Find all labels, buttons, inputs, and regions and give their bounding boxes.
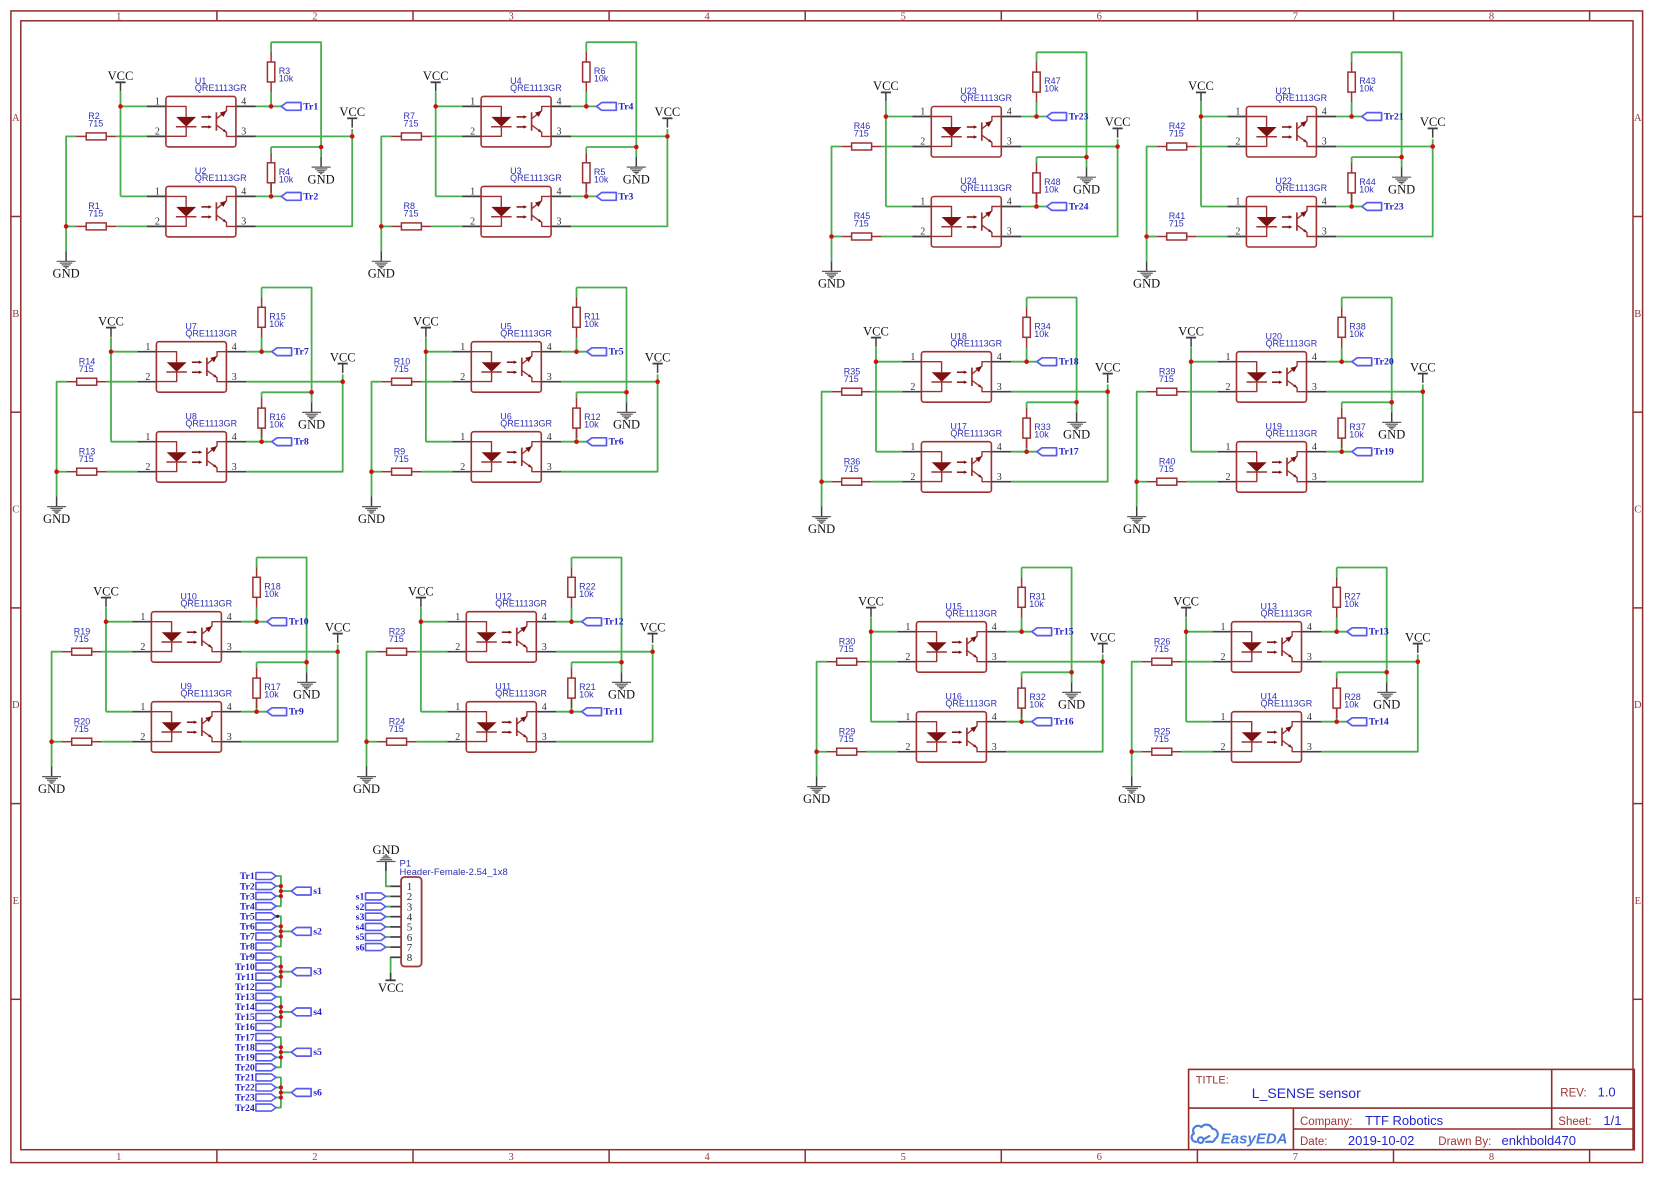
svg-text:4: 4 xyxy=(1322,197,1327,208)
svg-text:Tr14: Tr14 xyxy=(1369,717,1389,728)
net flag Tr5 xyxy=(587,347,624,358)
ground GND (above P1) xyxy=(372,843,399,871)
svg-text:QRE1113GR: QRE1113GR xyxy=(945,608,997,618)
wire: left GND rail xyxy=(832,147,842,262)
svg-text:1: 1 xyxy=(1221,712,1226,723)
svg-text:Tr23: Tr23 xyxy=(1384,201,1404,212)
resistor R30 715 xyxy=(827,636,867,665)
wire: bus Tr21-Tr24 to s6 xyxy=(276,1077,291,1107)
svg-text:1: 1 xyxy=(116,1152,121,1163)
opto-sensor U5 QRE1113GR xyxy=(460,321,552,392)
svg-text:4: 4 xyxy=(1007,197,1012,208)
opto-sensor U20 QRE1113GR xyxy=(1226,331,1318,402)
wire: left GND rail xyxy=(817,662,827,777)
svg-text:1: 1 xyxy=(155,97,160,108)
svg-text:5: 5 xyxy=(901,12,906,23)
wire: bus Tr9-Tr12 to s3 xyxy=(276,957,291,987)
wire: top rail R18 to right GND xyxy=(257,558,307,673)
svg-text:C: C xyxy=(1634,505,1641,516)
wire: R46 to U23 pin 2 xyxy=(882,146,913,148)
net flag s3 (at P1) xyxy=(356,912,386,923)
wire: P1 pin 1 to GND xyxy=(386,871,390,886)
svg-text:A: A xyxy=(12,113,20,124)
svg-text:VCC: VCC xyxy=(339,105,365,119)
svg-text:10k: 10k xyxy=(1044,185,1059,195)
svg-text:2: 2 xyxy=(1226,382,1231,393)
svg-text:QRE1113GR: QRE1113GR xyxy=(195,173,247,183)
ground GND (right) xyxy=(1058,682,1085,711)
wire: top rail R11 to right GND xyxy=(577,288,627,403)
resistor R43 10k xyxy=(1348,62,1376,102)
svg-text:715: 715 xyxy=(854,129,869,139)
resistor R21 10k xyxy=(568,668,596,708)
svg-text:3: 3 xyxy=(547,462,552,473)
resistor R42 715 xyxy=(1157,121,1197,150)
junction dots xyxy=(1129,629,1420,754)
net flag Tr14 xyxy=(1347,717,1389,728)
wire: U21 pin 4 to Tr21 flag xyxy=(1336,102,1362,117)
wire: top rail R3 to right GND xyxy=(271,42,321,157)
net flag Tr11 xyxy=(582,707,623,718)
wire: U21 pin 3 / U22 pin 3 to VCC xyxy=(1336,139,1432,236)
svg-text:3: 3 xyxy=(1312,382,1317,393)
svg-text:4: 4 xyxy=(232,342,237,353)
ground GND (left) xyxy=(1123,507,1150,536)
pin stubs U9 xyxy=(133,712,242,742)
svg-text:GND: GND xyxy=(353,782,380,796)
svg-text:3: 3 xyxy=(542,642,547,653)
junction dots xyxy=(64,104,355,229)
svg-text:Header-Female-2.54_1x8: Header-Female-2.54_1x8 xyxy=(400,867,508,878)
power VCC (below P1) xyxy=(378,973,404,995)
net flag Tr3 xyxy=(597,191,634,202)
svg-text:715: 715 xyxy=(389,634,404,644)
svg-text:715: 715 xyxy=(1154,644,1169,654)
svg-text:A: A xyxy=(1634,113,1642,124)
svg-text:Tr9: Tr9 xyxy=(289,707,304,718)
power VCC (right) xyxy=(1095,360,1121,383)
resistor R31 10k xyxy=(1018,577,1046,617)
svg-text:8: 8 xyxy=(407,952,413,964)
wire: R44 top to right GND node xyxy=(1352,157,1402,163)
wire: R28 top to right GND node xyxy=(1337,672,1387,678)
wire: R45 to U24 pin 2 xyxy=(882,236,913,238)
wire: R25 to U14 pin 2 xyxy=(1182,751,1213,753)
net flag Tr23 xyxy=(1362,201,1404,212)
wire: s3 to P1 pin 4 xyxy=(386,916,391,918)
power VCC (right) xyxy=(330,350,356,373)
svg-text:QRE1113GR: QRE1113GR xyxy=(960,93,1012,103)
EasyEDA logo xyxy=(1192,1125,1288,1148)
pin stubs U21 xyxy=(1228,117,1337,147)
opto-sensor U18 QRE1113GR xyxy=(910,331,1002,402)
junction dots xyxy=(819,359,1110,484)
wire: U20 pin 4 to Tr20 flag xyxy=(1326,347,1352,362)
pin stubs U20 xyxy=(1218,362,1327,392)
wire: top rail R38 to right GND xyxy=(1342,298,1392,413)
svg-text:Sheet:: Sheet: xyxy=(1558,1116,1591,1128)
ground GND (right) xyxy=(1373,682,1400,711)
wire: R12 top to right GND node xyxy=(577,392,627,398)
svg-text:Tr19: Tr19 xyxy=(1374,447,1394,458)
svg-text:715: 715 xyxy=(1169,129,1184,139)
net flag Tr6 xyxy=(587,437,624,448)
svg-text:QRE1113GR: QRE1113GR xyxy=(1261,698,1313,708)
wire: U3 pin 4 to Tr3 flag xyxy=(571,183,597,197)
svg-text:3: 3 xyxy=(241,127,246,138)
net label Tr17 (list) xyxy=(235,1032,276,1043)
junction dots xyxy=(49,619,340,744)
svg-text:GND: GND xyxy=(623,172,650,186)
svg-text:QRE1113GR: QRE1113GR xyxy=(510,83,562,93)
svg-text:1: 1 xyxy=(460,342,465,353)
wire: R41 to U22 pin 2 xyxy=(1197,236,1228,238)
svg-text:7: 7 xyxy=(1293,12,1298,23)
junction dots xyxy=(364,619,655,744)
wire: bus Tr1-Tr4 to s1 xyxy=(276,876,291,906)
svg-text:715: 715 xyxy=(74,724,89,734)
power VCC (left) xyxy=(873,79,899,102)
svg-text:QRE1113GR: QRE1113GR xyxy=(195,83,247,93)
net flag Tr4 xyxy=(597,101,634,112)
net label Tr21 (list) xyxy=(235,1073,276,1084)
svg-text:D: D xyxy=(1634,700,1642,711)
svg-text:Tr12: Tr12 xyxy=(604,617,624,628)
svg-text:715: 715 xyxy=(1154,734,1169,744)
net flag Tr21 xyxy=(1362,111,1404,122)
resistor R12 10k xyxy=(573,398,601,438)
net flag Tr24 xyxy=(1047,201,1089,212)
wire: R16 top to right GND node xyxy=(262,392,312,398)
junction dots xyxy=(54,349,345,474)
pin stubs U10 xyxy=(133,622,242,652)
power VCC (left) xyxy=(423,69,449,92)
resistor R27 10k xyxy=(1333,577,1361,617)
resistor R37 10k xyxy=(1338,408,1366,448)
svg-text:Tr13: Tr13 xyxy=(1369,627,1389,638)
wire: U7 pin 4 to Tr7 flag xyxy=(246,337,271,352)
svg-text:10k: 10k xyxy=(269,319,284,329)
opto-sensor U2 QRE1113GR xyxy=(155,166,247,237)
power VCC (right) xyxy=(1420,115,1446,138)
net flag s1 (list) xyxy=(291,886,322,897)
svg-text:4: 4 xyxy=(1007,107,1012,118)
pin stubs U6 xyxy=(452,442,561,472)
wire: R19 to U10 pin 2 xyxy=(102,651,133,653)
power VCC (left) xyxy=(863,324,889,347)
svg-text:2: 2 xyxy=(155,127,160,138)
svg-text:GND: GND xyxy=(358,512,385,526)
svg-text:VCC: VCC xyxy=(873,79,899,93)
svg-text:4: 4 xyxy=(704,12,710,23)
svg-text:enkhbold470: enkhbold470 xyxy=(1502,1133,1576,1148)
svg-text:Tr20: Tr20 xyxy=(1374,357,1394,368)
svg-text:3: 3 xyxy=(542,732,547,743)
wire: U9 pin 4 to Tr9 flag xyxy=(241,698,266,712)
svg-text:2: 2 xyxy=(905,742,910,753)
svg-text:s5: s5 xyxy=(313,1047,322,1058)
opto-sensor U8 QRE1113GR xyxy=(145,411,237,482)
svg-text:10k: 10k xyxy=(279,174,294,184)
svg-text:GND: GND xyxy=(1133,277,1160,291)
ground GND (right) xyxy=(298,402,325,431)
svg-text:VCC: VCC xyxy=(1090,630,1116,644)
net flag Tr23 xyxy=(1047,111,1089,122)
svg-text:715: 715 xyxy=(394,364,409,374)
svg-text:QRE1113GR: QRE1113GR xyxy=(950,338,1002,348)
wire: R2 to U1 pin 2 xyxy=(116,135,147,137)
net flag s4 (list) xyxy=(291,1007,322,1018)
wire: U13 pin 3 / U14 pin 3 to VCC xyxy=(1321,654,1417,751)
svg-text:VCC: VCC xyxy=(93,584,119,598)
svg-text:3: 3 xyxy=(1007,137,1012,148)
svg-text:1: 1 xyxy=(460,432,465,443)
power VCC (left) xyxy=(93,584,119,607)
wire: U5 pin 4 to Tr5 flag xyxy=(561,337,587,352)
svg-text:1/1: 1/1 xyxy=(1603,1113,1621,1128)
svg-text:1: 1 xyxy=(1226,442,1231,453)
svg-text:Tr15: Tr15 xyxy=(1054,627,1074,638)
svg-text:GND: GND xyxy=(803,792,830,806)
svg-text:GND: GND xyxy=(43,512,70,526)
opto-sensor U6 QRE1113GR xyxy=(460,411,552,482)
svg-text:10k: 10k xyxy=(1344,700,1359,710)
wire: VCC rail to U4 pin 1 and U3 pin 1 xyxy=(436,92,463,196)
svg-text:GND: GND xyxy=(1063,428,1090,442)
pin stubs U12 xyxy=(447,622,556,652)
wire: U23 pin 3 / U24 pin 3 to VCC xyxy=(1021,139,1117,236)
svg-text:2: 2 xyxy=(1226,472,1231,483)
svg-text:Tr6: Tr6 xyxy=(609,437,624,448)
svg-text:10k: 10k xyxy=(594,174,609,184)
net flag s5 (at P1) xyxy=(356,932,386,943)
svg-text:3: 3 xyxy=(227,732,232,743)
svg-text:GND: GND xyxy=(1058,698,1085,712)
power VCC (right) xyxy=(1090,630,1116,653)
net flag Tr9 xyxy=(267,707,304,718)
svg-text:1: 1 xyxy=(455,702,460,713)
svg-text:2: 2 xyxy=(910,382,915,393)
wire: VCC rail to U18 pin 1 and U17 pin 1 xyxy=(876,347,903,452)
svg-text:715: 715 xyxy=(844,374,859,384)
svg-text:4: 4 xyxy=(232,432,237,443)
net label Tr16 (list) xyxy=(235,1022,276,1033)
svg-text:2: 2 xyxy=(455,642,460,653)
net flag s3 (list) xyxy=(291,967,322,978)
opto-sensor U9 QRE1113GR xyxy=(140,681,232,752)
svg-text:s1: s1 xyxy=(313,886,322,897)
net flag Tr16 xyxy=(1032,717,1074,728)
wire: R4 top to right GND node xyxy=(271,147,321,153)
net flag s2 (at P1) xyxy=(356,902,386,913)
wire: left GND rail xyxy=(1137,392,1147,507)
pin stubs U4 xyxy=(462,106,571,136)
net label Tr19 (list) xyxy=(235,1053,276,1064)
wire: U18 pin 4 to Tr18 flag xyxy=(1011,347,1037,362)
svg-text:L_SENSE sensor: L_SENSE sensor xyxy=(1252,1085,1361,1101)
wire: left GND rail xyxy=(381,136,391,251)
svg-text:QRE1113GR: QRE1113GR xyxy=(1275,93,1327,103)
junction dots xyxy=(379,104,670,229)
pin stubs U14 xyxy=(1213,722,1322,752)
opto-sensor U10 QRE1113GR xyxy=(140,591,232,662)
svg-text:VCC: VCC xyxy=(640,620,666,634)
wire: R48 top to right GND node xyxy=(1037,157,1087,163)
svg-text:E: E xyxy=(13,896,19,907)
wire: R5 top to right GND node xyxy=(586,147,636,153)
ground GND (right) xyxy=(1388,167,1415,196)
svg-text:Tr16: Tr16 xyxy=(1054,717,1074,728)
svg-text:3: 3 xyxy=(557,127,562,138)
svg-text:s6: s6 xyxy=(356,942,365,953)
net flag Tr13 xyxy=(1347,627,1389,638)
svg-text:TTF Robotics: TTF Robotics xyxy=(1365,1113,1444,1128)
resistor R13 715 xyxy=(67,446,107,475)
net flag s1 (at P1) xyxy=(356,892,386,903)
svg-text:VCC: VCC xyxy=(378,981,404,995)
no-connect mark at Tr5 xyxy=(276,915,279,918)
svg-text:Tr18: Tr18 xyxy=(1059,357,1079,368)
wire: VCC rail to U23 pin 1 and U24 pin 1 xyxy=(886,102,913,207)
connector P1 Header-Female-2.54_1x8 xyxy=(400,858,508,966)
wire: s1 to P1 pin 2 xyxy=(386,895,391,897)
pin stubs U22 xyxy=(1228,207,1337,237)
svg-text:Tr3: Tr3 xyxy=(618,191,633,202)
pin stubs U13 xyxy=(1213,632,1322,662)
wire: P1 pin 8 to VCC xyxy=(389,957,391,973)
wire: U14 pin 4 to Tr14 flag xyxy=(1321,708,1347,722)
svg-text:1: 1 xyxy=(145,432,150,443)
svg-text:10k: 10k xyxy=(269,420,284,430)
net label Tr11 (list) xyxy=(235,972,276,983)
svg-text:1: 1 xyxy=(470,187,475,198)
power VCC (left) xyxy=(858,594,884,617)
svg-text:QRE1113GR: QRE1113GR xyxy=(1275,183,1327,193)
svg-text:4: 4 xyxy=(547,342,552,353)
svg-text:6: 6 xyxy=(1097,12,1102,23)
svg-text:2: 2 xyxy=(920,227,925,238)
svg-text:3: 3 xyxy=(232,462,237,473)
net flag Tr15 xyxy=(1032,627,1074,638)
svg-text:REV:: REV: xyxy=(1560,1087,1586,1099)
wire: top rail R22 to right GND xyxy=(572,558,622,673)
opto-sensor U21 QRE1113GR xyxy=(1235,86,1327,157)
ground GND (left) xyxy=(818,261,845,290)
svg-text:1: 1 xyxy=(145,342,150,353)
svg-text:1: 1 xyxy=(910,352,915,363)
svg-text:QRE1113GR: QRE1113GR xyxy=(495,598,547,608)
pin stubs U23 xyxy=(912,117,1021,147)
svg-text:GND: GND xyxy=(1378,428,1405,442)
svg-text:Tr1: Tr1 xyxy=(303,101,318,112)
opto-sensor U22 QRE1113GR xyxy=(1235,176,1327,247)
wire: VCC rail to U10 pin 1 and U9 pin 1 xyxy=(106,607,133,712)
resistor R7 715 xyxy=(391,111,431,140)
svg-text:Tr4: Tr4 xyxy=(618,101,633,112)
resistor R9 715 xyxy=(382,446,422,475)
svg-text:10k: 10k xyxy=(579,589,594,599)
svg-text:10k: 10k xyxy=(1044,84,1059,94)
svg-text:VCC: VCC xyxy=(858,594,884,608)
svg-text:7: 7 xyxy=(1293,1152,1298,1163)
net label Tr5 (list) xyxy=(240,912,276,923)
svg-text:10k: 10k xyxy=(264,589,279,599)
svg-text:715: 715 xyxy=(389,724,404,734)
svg-text:4: 4 xyxy=(1307,622,1312,633)
svg-text:1: 1 xyxy=(1226,352,1231,363)
svg-text:10k: 10k xyxy=(1359,185,1374,195)
pin stubs U3 xyxy=(462,196,571,226)
svg-text:3: 3 xyxy=(1322,227,1327,238)
power VCC (left) xyxy=(413,314,439,337)
resistor R45 715 xyxy=(842,211,882,240)
svg-text:GND: GND xyxy=(818,277,845,291)
svg-text:2: 2 xyxy=(312,1152,317,1163)
ground GND (right) xyxy=(1073,167,1100,196)
svg-text:2: 2 xyxy=(145,372,150,383)
wire: R14 to U7 pin 2 xyxy=(107,381,138,383)
svg-text:GND: GND xyxy=(298,418,325,432)
net flag Tr10 xyxy=(267,617,309,628)
svg-text:3: 3 xyxy=(1312,472,1317,483)
power VCC (right) xyxy=(1405,630,1431,653)
ground GND (left) xyxy=(1133,261,1160,290)
wire: left GND rail xyxy=(822,392,832,507)
net label Tr24 (list) xyxy=(235,1103,276,1114)
svg-text:3: 3 xyxy=(508,12,513,23)
power VCC (right) xyxy=(645,350,671,373)
svg-text:4: 4 xyxy=(997,442,1002,453)
svg-text:GND: GND xyxy=(308,172,335,186)
svg-text:1: 1 xyxy=(905,622,910,633)
svg-text:2: 2 xyxy=(920,137,925,148)
net label Tr20 (list) xyxy=(235,1063,276,1074)
svg-text:Tr10: Tr10 xyxy=(289,617,309,628)
wire: left GND rail xyxy=(372,382,382,497)
resistor R41 715 xyxy=(1157,211,1197,240)
svg-text:Tr8: Tr8 xyxy=(294,437,309,448)
svg-text:8: 8 xyxy=(1489,12,1494,23)
wire: R39 to U20 pin 2 xyxy=(1187,391,1218,393)
pin stubs U1 xyxy=(147,106,256,136)
ground GND (left) xyxy=(808,507,835,536)
opto-sensor U4 QRE1113GR xyxy=(470,76,562,147)
wire: U4 pin 3 / U3 pin 3 to VCC xyxy=(571,129,667,226)
ground GND (right) xyxy=(1378,412,1405,441)
svg-text:1: 1 xyxy=(905,712,910,723)
svg-text:Tr21: Tr21 xyxy=(1384,111,1404,122)
svg-text:3: 3 xyxy=(547,372,552,383)
svg-text:10k: 10k xyxy=(1344,599,1359,609)
svg-text:715: 715 xyxy=(854,219,869,229)
svg-text:10k: 10k xyxy=(1349,329,1364,339)
svg-text:715: 715 xyxy=(839,734,854,744)
svg-text:2: 2 xyxy=(470,127,475,138)
svg-text:3: 3 xyxy=(227,642,232,653)
svg-text:VCC: VCC xyxy=(423,69,449,83)
resistor R44 10k xyxy=(1348,163,1376,203)
svg-text:QRE1113GR: QRE1113GR xyxy=(1261,608,1313,618)
svg-text:s3: s3 xyxy=(313,967,322,978)
ground GND (left) xyxy=(358,497,385,526)
wire: top rail R31 to right GND xyxy=(1022,568,1072,683)
svg-text:GND: GND xyxy=(293,688,320,702)
svg-text:10k: 10k xyxy=(584,420,599,430)
svg-text:VCC: VCC xyxy=(645,350,671,364)
wire: U16 pin 4 to Tr16 flag xyxy=(1006,708,1032,722)
wire: s6 to P1 pin 7 xyxy=(386,946,391,948)
svg-text:715: 715 xyxy=(1159,464,1174,474)
